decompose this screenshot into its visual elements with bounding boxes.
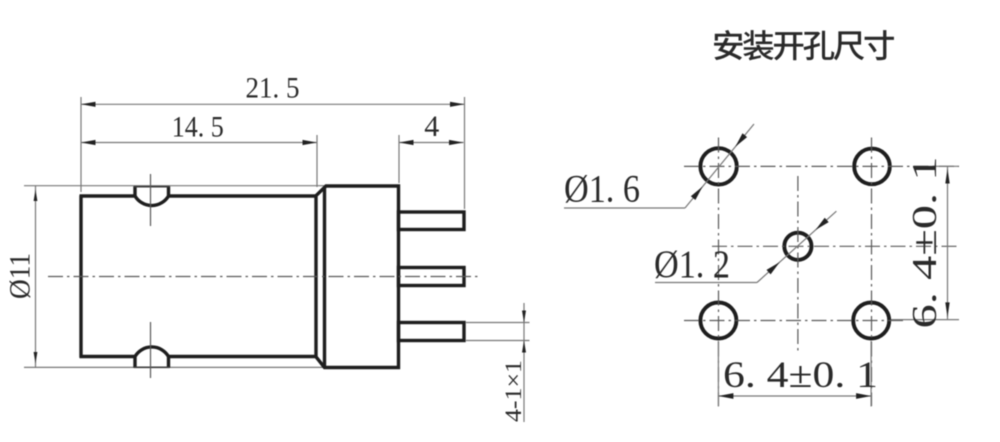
dimension 6.4±0.1 vertical	[947, 166, 949, 319]
dimension 4	[399, 142, 464, 144]
centerline bottom row	[684, 320, 905, 322]
top-right hole	[854, 149, 890, 185]
extension line y=367.4	[24, 366, 324, 368]
extension line x=464.5	[464, 97, 466, 209]
title 安装开孔尺寸	[714, 30, 894, 60]
top-left hole	[700, 148, 736, 184]
extension line bottom right hole	[870, 341, 872, 407]
center hole	[784, 233, 811, 260]
extension line top right	[934, 165, 958, 167]
centerline middle row	[712, 245, 959, 247]
bottom bayonet lug	[135, 347, 169, 368]
bottom-left hole	[700, 303, 736, 339]
extension line x=399	[398, 135, 400, 183]
svg-text:Ø1. 6: Ø1. 6	[564, 168, 640, 211]
svg-text:6. 4±0. 1: 6. 4±0. 1	[723, 355, 878, 396]
centerline left column	[718, 138, 720, 407]
pin thickness dimension	[523, 303, 525, 422]
top pin	[399, 212, 465, 230]
centerline top row	[684, 165, 959, 167]
leader line Ø1.6	[564, 207, 685, 209]
svg-text:21. 5: 21. 5	[246, 72, 300, 105]
bottom lug centerline	[150, 322, 152, 378]
dimension Ø11	[35, 186, 37, 367]
dimension 14.5	[81, 142, 317, 144]
extension line bottom right	[891, 319, 959, 321]
top lug centerline	[150, 174, 152, 226]
svg-text:14. 5: 14. 5	[172, 111, 224, 144]
svg-text:Ø1. 2: Ø1. 2	[654, 243, 730, 286]
bottom-right hole	[853, 303, 889, 339]
top bayonet lug	[135, 186, 169, 205]
connector barrel outline	[79, 196, 82, 358]
svg-text:4-1×1: 4-1×1	[501, 360, 526, 422]
centerline middle column	[797, 176, 799, 352]
pin thickness extension lines	[466, 322, 530, 324]
extension line bottom left hole	[717, 341, 719, 407]
dimension 21.5 top	[81, 103, 465, 105]
centerline right column	[871, 138, 873, 407]
dimension 6.4±0.1 horizontal	[718, 395, 871, 397]
extension line left (x=81)	[80, 97, 82, 192]
flange outline	[316, 186, 399, 368]
extension line x=317	[316, 135, 318, 187]
extension line y=185.7	[24, 185, 326, 187]
leader line Ø1.2	[655, 282, 757, 284]
svg-text:6. 4±0. 1: 6. 4±0. 1	[905, 157, 944, 329]
svg-text:Ø11: Ø11	[4, 253, 37, 299]
middle pin	[399, 268, 465, 286]
svg-text:4: 4	[424, 110, 439, 143]
horizontal centerline	[48, 276, 478, 278]
bottom pin	[399, 323, 465, 341]
flange inner edge	[323, 187, 326, 367]
